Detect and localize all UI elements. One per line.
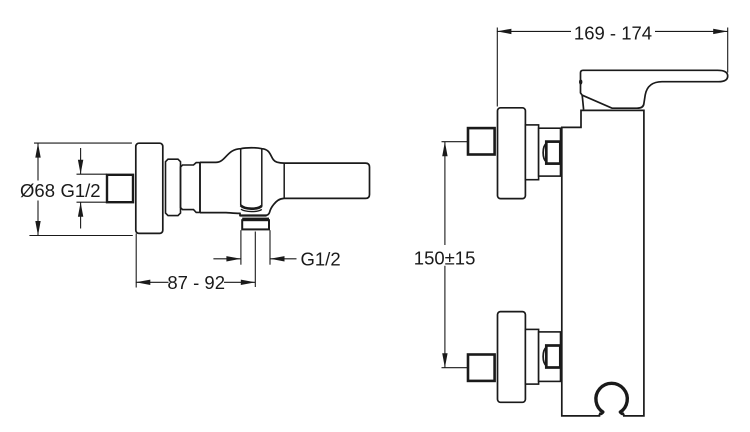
square inlet nut [107,175,133,202]
bonnet bottom thick arc [241,205,262,208]
bottom union: step A [525,329,538,384]
dimension Ø68: vertical line + arrows [37,143,39,235]
svg-text:150±15: 150±15 [414,248,476,269]
top union: step A [525,125,538,180]
dimension G1/2 inlet: arrows [80,148,82,229]
shower hose hook [600,414,623,417]
extension line left (wall face) [496,28,498,107]
top union: escutcheon flange [498,108,526,199]
bottom union: hex nut [546,346,560,368]
extension line outlet left [240,230,242,265]
outlet centerline extension [254,232,256,288]
extension line right (handle tip) [727,28,729,73]
handle joint line [283,163,285,198]
bottom union: extension line [442,367,469,369]
dimension 87-92 [136,281,169,283]
extension line bottom (Ø68) [29,235,132,237]
bottom union: wall nut [468,355,495,381]
lever index dot [579,79,582,84]
top union: hex nut [546,142,560,164]
top union: extension line [442,141,469,143]
cartridge bonnet vertical edges [240,149,242,206]
outlet ring (dark band) [242,218,269,220]
extension line top (Ø68) [34,142,132,144]
extension line G1/2 bottom [77,201,108,203]
extension line G1/2 top [77,173,108,175]
lever handle [581,70,728,108]
svg-text:Ø68: Ø68 [20,180,55,201]
svg-text:169 - 174: 169 - 174 [574,23,652,44]
connector step 2 [181,163,201,213]
top union: wall nut [468,128,495,154]
mixer body [562,110,644,416]
extension line outlet right [269,230,271,265]
valve body with bulge and handle (outline) [200,148,370,216]
dimension G1/2 outlet: arrows [213,258,241,260]
bottom union: step B [539,332,561,382]
svg-text:G1/2: G1/2 [301,249,341,270]
outlet flange bottom thick edge [240,214,267,216]
svg-text:G1/2: G1/2 [60,180,100,201]
extension line wall face [135,233,137,287]
connector step 1 [166,159,181,215]
svg-text:87 - 92: 87 - 92 [167,272,225,293]
top union: hex nut arc [543,143,546,162]
bottom union: hex nut arc [543,347,546,366]
dimension 150±15 [444,142,446,368]
outlet nut [242,220,269,229]
dimension 169-174 [497,30,571,32]
bottom union: escutcheon flange [498,312,526,403]
wall escutcheon (side) [136,143,163,233]
top union: step B [539,128,561,176]
